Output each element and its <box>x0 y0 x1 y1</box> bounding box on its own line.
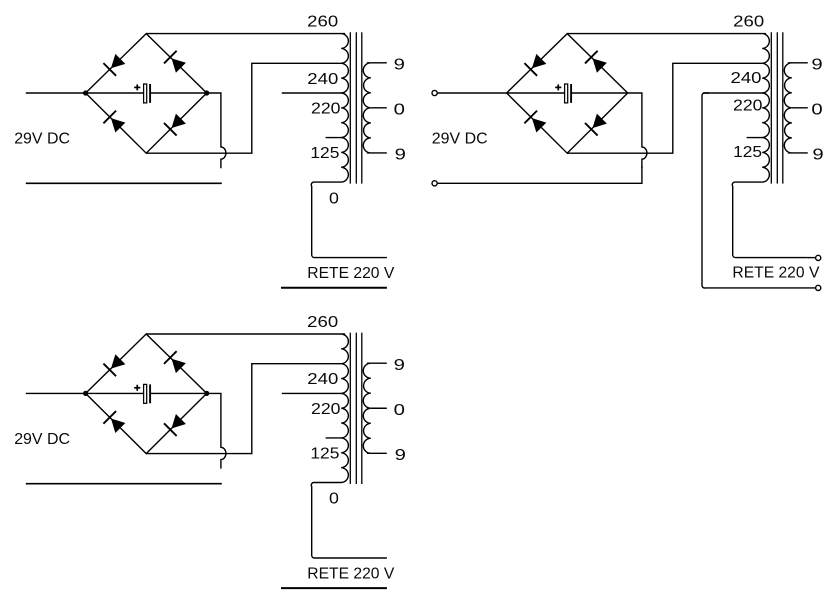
svg-text:125: 125 <box>733 144 762 161</box>
svg-text:9: 9 <box>811 56 822 73</box>
svg-text:RETE 220 V: RETE 220 V <box>732 265 819 282</box>
svg-text:9: 9 <box>812 146 823 163</box>
svg-text:0: 0 <box>811 101 822 118</box>
svg-text:240: 240 <box>731 70 762 87</box>
svg-text:220: 220 <box>733 98 763 115</box>
svg-text:260: 260 <box>733 14 764 31</box>
svg-text:29V DC: 29V DC <box>432 131 488 148</box>
